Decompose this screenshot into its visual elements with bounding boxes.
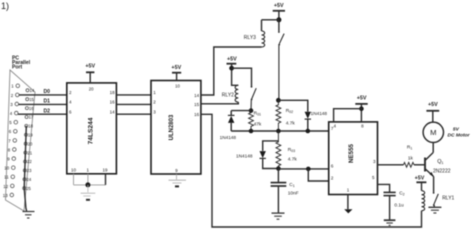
svg-text:1N4148: 1N4148 (236, 153, 253, 158)
U1 pin labels 10 1 19 (71, 168, 108, 173)
svg-text:16: 16 (110, 100, 116, 105)
svg-text:15: 15 (29, 97, 34, 102)
svg-text:19: 19 (103, 168, 109, 173)
svg-text:18: 18 (28, 124, 33, 129)
svg-text:10nF: 10nF (288, 191, 299, 197)
motor M1 (423, 122, 443, 142)
svg-text:1: 1 (11, 84, 14, 89)
svg-text:1): 1) (1, 1, 9, 11)
svg-text:R1: R1 (407, 145, 412, 151)
svg-text:19: 19 (28, 133, 33, 138)
svg-text:14: 14 (30, 88, 35, 93)
svg-text:18: 18 (110, 90, 116, 95)
svg-text:+5V: +5V (357, 96, 367, 102)
svg-text:14: 14 (110, 109, 116, 114)
node junction R03 bottom (276, 166, 281, 171)
wire collector to motor (432, 143, 434, 153)
buffer U1 74LS244 body (67, 83, 117, 174)
wire coil top elbow (232, 68, 239, 85)
svg-text:1N4148: 1N4148 (311, 111, 328, 116)
wire U2 pin14 up to RLY3 coil (201, 47, 262, 95)
svg-text:+5V: +5V (85, 64, 95, 70)
svg-text:21: 21 (27, 150, 32, 155)
svg-text:22: 22 (27, 159, 32, 164)
svg-text:Port: Port (12, 65, 22, 71)
connector J1 PC parallel port outline (6, 70, 36, 211)
svg-text:1: 1 (87, 168, 90, 173)
J1 right pins 14-25 circles and numbers (23, 89, 29, 190)
svg-text:20: 20 (89, 86, 94, 91)
ground under U2 (169, 174, 187, 186)
relay coil RLY1 (422, 191, 425, 211)
svg-text:9: 9 (7, 157, 10, 162)
svg-text:6: 6 (69, 109, 72, 114)
node junction +5V RLY3 (276, 17, 281, 22)
svg-text:+5V: +5V (415, 175, 425, 181)
ground under C1 (272, 213, 285, 219)
resistor R03 4.7k (276, 131, 281, 169)
svg-text:D1: D1 (44, 99, 51, 105)
svg-text:R01: R01 (254, 111, 261, 117)
U3 pin labels 3 5 (372, 159, 376, 180)
diode D2 1N4148 (305, 112, 311, 131)
wire U3 pin3 to R1 (378, 164, 404, 166)
svg-text:12: 12 (3, 184, 8, 189)
svg-text:9: 9 (175, 168, 178, 173)
resistor R01 47k (249, 111, 254, 131)
power +5V for U3 (355, 96, 367, 122)
wire D1 (18, 103, 66, 105)
node junction U3 supply (359, 106, 364, 111)
svg-text:ULN2803: ULN2803 (169, 114, 175, 140)
svg-text:10: 10 (175, 84, 180, 89)
wire U2 pin15 to RLY2 coil (201, 102, 238, 104)
svg-text:3: 3 (153, 109, 156, 114)
svg-text:DC Motor: DC Motor (448, 132, 471, 138)
svg-text:+5V: +5V (428, 102, 438, 108)
svg-text:20: 20 (28, 141, 33, 146)
svg-text:47k: 47k (254, 122, 262, 128)
svg-text:+5V: +5V (171, 65, 181, 71)
wire to diode D1 (231, 110, 251, 112)
svg-text:RLY1: RLY1 (442, 195, 454, 201)
capacitor C2 0.1u (384, 192, 396, 219)
relay coil RLY3 (262, 20, 265, 47)
svg-text:NE555: NE555 (348, 143, 355, 162)
svg-text:6: 6 (331, 164, 334, 169)
svg-text:1: 1 (347, 188, 350, 193)
U3 pin labels 7 6 2 (331, 126, 334, 181)
U2 pin labels 14 15 16 (194, 93, 200, 117)
power +5V for RLY3 (273, 3, 285, 20)
svg-text:15: 15 (194, 102, 200, 107)
svg-text:D2: D2 (44, 108, 51, 114)
svg-text:10: 10 (71, 168, 77, 173)
svg-text:D0: D0 (44, 89, 51, 95)
svg-text:1: 1 (153, 90, 156, 95)
relay contact RLY3 (N/O) (278, 20, 284, 101)
wire junction to coil top (262, 19, 279, 21)
svg-text:74LS244: 74LS244 (87, 117, 94, 144)
wire D0 (19, 94, 67, 96)
junction dot (85, 182, 90, 187)
power +5V for motor (426, 102, 439, 122)
wire emitter down (433, 177, 435, 193)
power +5V for U1 (85, 64, 95, 83)
svg-text:R02: R02 (286, 108, 293, 114)
svg-text:2: 2 (11, 93, 14, 98)
relay contact RLY2 (N/O) (232, 68, 257, 110)
wire to U3 pin2 (308, 169, 328, 181)
svg-text:5: 5 (372, 175, 375, 180)
svg-text:+5V: +5V (227, 56, 237, 62)
capacitor C1 10nF (271, 169, 287, 213)
svg-text:11: 11 (4, 175, 9, 180)
node junction trigger branch (306, 167, 311, 172)
svg-text:24: 24 (27, 177, 32, 182)
svg-text:+5V: +5V (274, 3, 284, 9)
wire D2 (18, 113, 67, 115)
svg-text:5: 5 (9, 120, 12, 125)
svg-text:16: 16 (194, 112, 200, 117)
svg-text:23: 23 (27, 168, 32, 173)
wire U3 pin5 to C2 (378, 184, 390, 192)
svg-text:17: 17 (29, 115, 34, 120)
wire RLY1 coil to bottom rail back to U2 pin16 (201, 114, 422, 227)
diode D3 1N4148 parallel with R03 (260, 141, 279, 169)
ground under connector (23, 212, 35, 219)
svg-text:14: 14 (194, 93, 200, 98)
node junction RLY3 contact to R02 (276, 98, 281, 103)
resistor R1 1k (404, 162, 415, 167)
node junction R01 top (249, 108, 254, 113)
wire to pin 4 (334, 109, 362, 122)
svg-text:3: 3 (10, 102, 13, 107)
U1 pin labels 18 16 14 (110, 90, 116, 114)
wire U1 pin18 to U2 pin1 (116, 94, 151, 96)
U2 pin labels 1 2 3 (153, 90, 156, 114)
power +5V for U2 (171, 65, 181, 80)
wire U1 pin16 to U2 pin2 (116, 103, 151, 105)
svg-text:8: 8 (8, 147, 11, 152)
wire node to diode D2 (278, 100, 307, 111)
svg-text:0.1u: 0.1u (394, 203, 404, 209)
svg-text:16: 16 (29, 106, 34, 111)
svg-text:10: 10 (4, 166, 9, 171)
wire R03 bottom to U3 pin6 (278, 168, 328, 170)
svg-text:RLY2: RLY2 (222, 92, 234, 98)
transistor Q1 2N2222 (425, 153, 434, 177)
svg-text:2: 2 (153, 100, 156, 105)
svg-text:2: 2 (69, 90, 72, 95)
ground under U3 pin1 (344, 195, 352, 214)
svg-text:2N2222: 2N2222 (433, 168, 451, 174)
wire threshold rail to U3 pin7 (231, 130, 329, 132)
svg-text:7: 7 (8, 138, 11, 143)
wire ground bus pins 18-25 (24, 126, 26, 211)
diode D1 1N4148 (228, 111, 235, 131)
svg-text:8: 8 (361, 124, 364, 129)
svg-text:4: 4 (69, 100, 72, 105)
power +5V for RLY1 coil (415, 175, 427, 190)
resistor R02 4.7k (276, 100, 281, 131)
U3 pin labels 4 8 (334, 124, 365, 129)
svg-text:M: M (430, 128, 436, 137)
node junction dots on rail (249, 129, 254, 134)
svg-text:25: 25 (26, 186, 31, 191)
svg-text:Q1: Q1 (437, 159, 443, 165)
svg-text:4: 4 (10, 111, 13, 116)
svg-text:6: 6 (9, 129, 12, 134)
svg-text:13: 13 (3, 193, 8, 198)
svg-text:1N4148: 1N4148 (220, 135, 237, 140)
relay contact RLY1 (N/O) (433, 192, 439, 207)
J1 left pins 1-13 circles and numbers (10, 84, 20, 197)
wire U1 enable pins to ground (74, 174, 106, 185)
svg-text:4.7k: 4.7k (288, 157, 298, 163)
svg-text:4.7k: 4.7k (286, 120, 296, 126)
svg-text:3: 3 (373, 159, 376, 164)
ground under C2 (384, 220, 396, 225)
connector J1 title text (12, 56, 31, 71)
svg-text:1k: 1k (408, 156, 414, 162)
ground under RLY1 contact (428, 207, 441, 213)
relay coil RLY2 (235, 85, 238, 102)
ground under U1 (81, 185, 96, 200)
node junction +5V RLY2 (229, 66, 234, 71)
power +5V for RLY2 (227, 56, 238, 68)
svg-text:C1: C1 (289, 182, 294, 188)
svg-text:2: 2 (331, 176, 334, 181)
svg-text:4: 4 (334, 124, 337, 129)
timer U3 NE555 body (329, 122, 378, 195)
driver U2 ULN2803 body (151, 81, 201, 175)
wire U1 pin14 to U2 pin3 (116, 113, 151, 115)
svg-text:5V: 5V (453, 126, 460, 132)
svg-text:R03: R03 (288, 147, 295, 153)
svg-text:C2: C2 (399, 191, 404, 197)
U1 pin labels 2 4 6 (69, 90, 72, 114)
svg-text:RLY3: RLY3 (244, 35, 256, 41)
